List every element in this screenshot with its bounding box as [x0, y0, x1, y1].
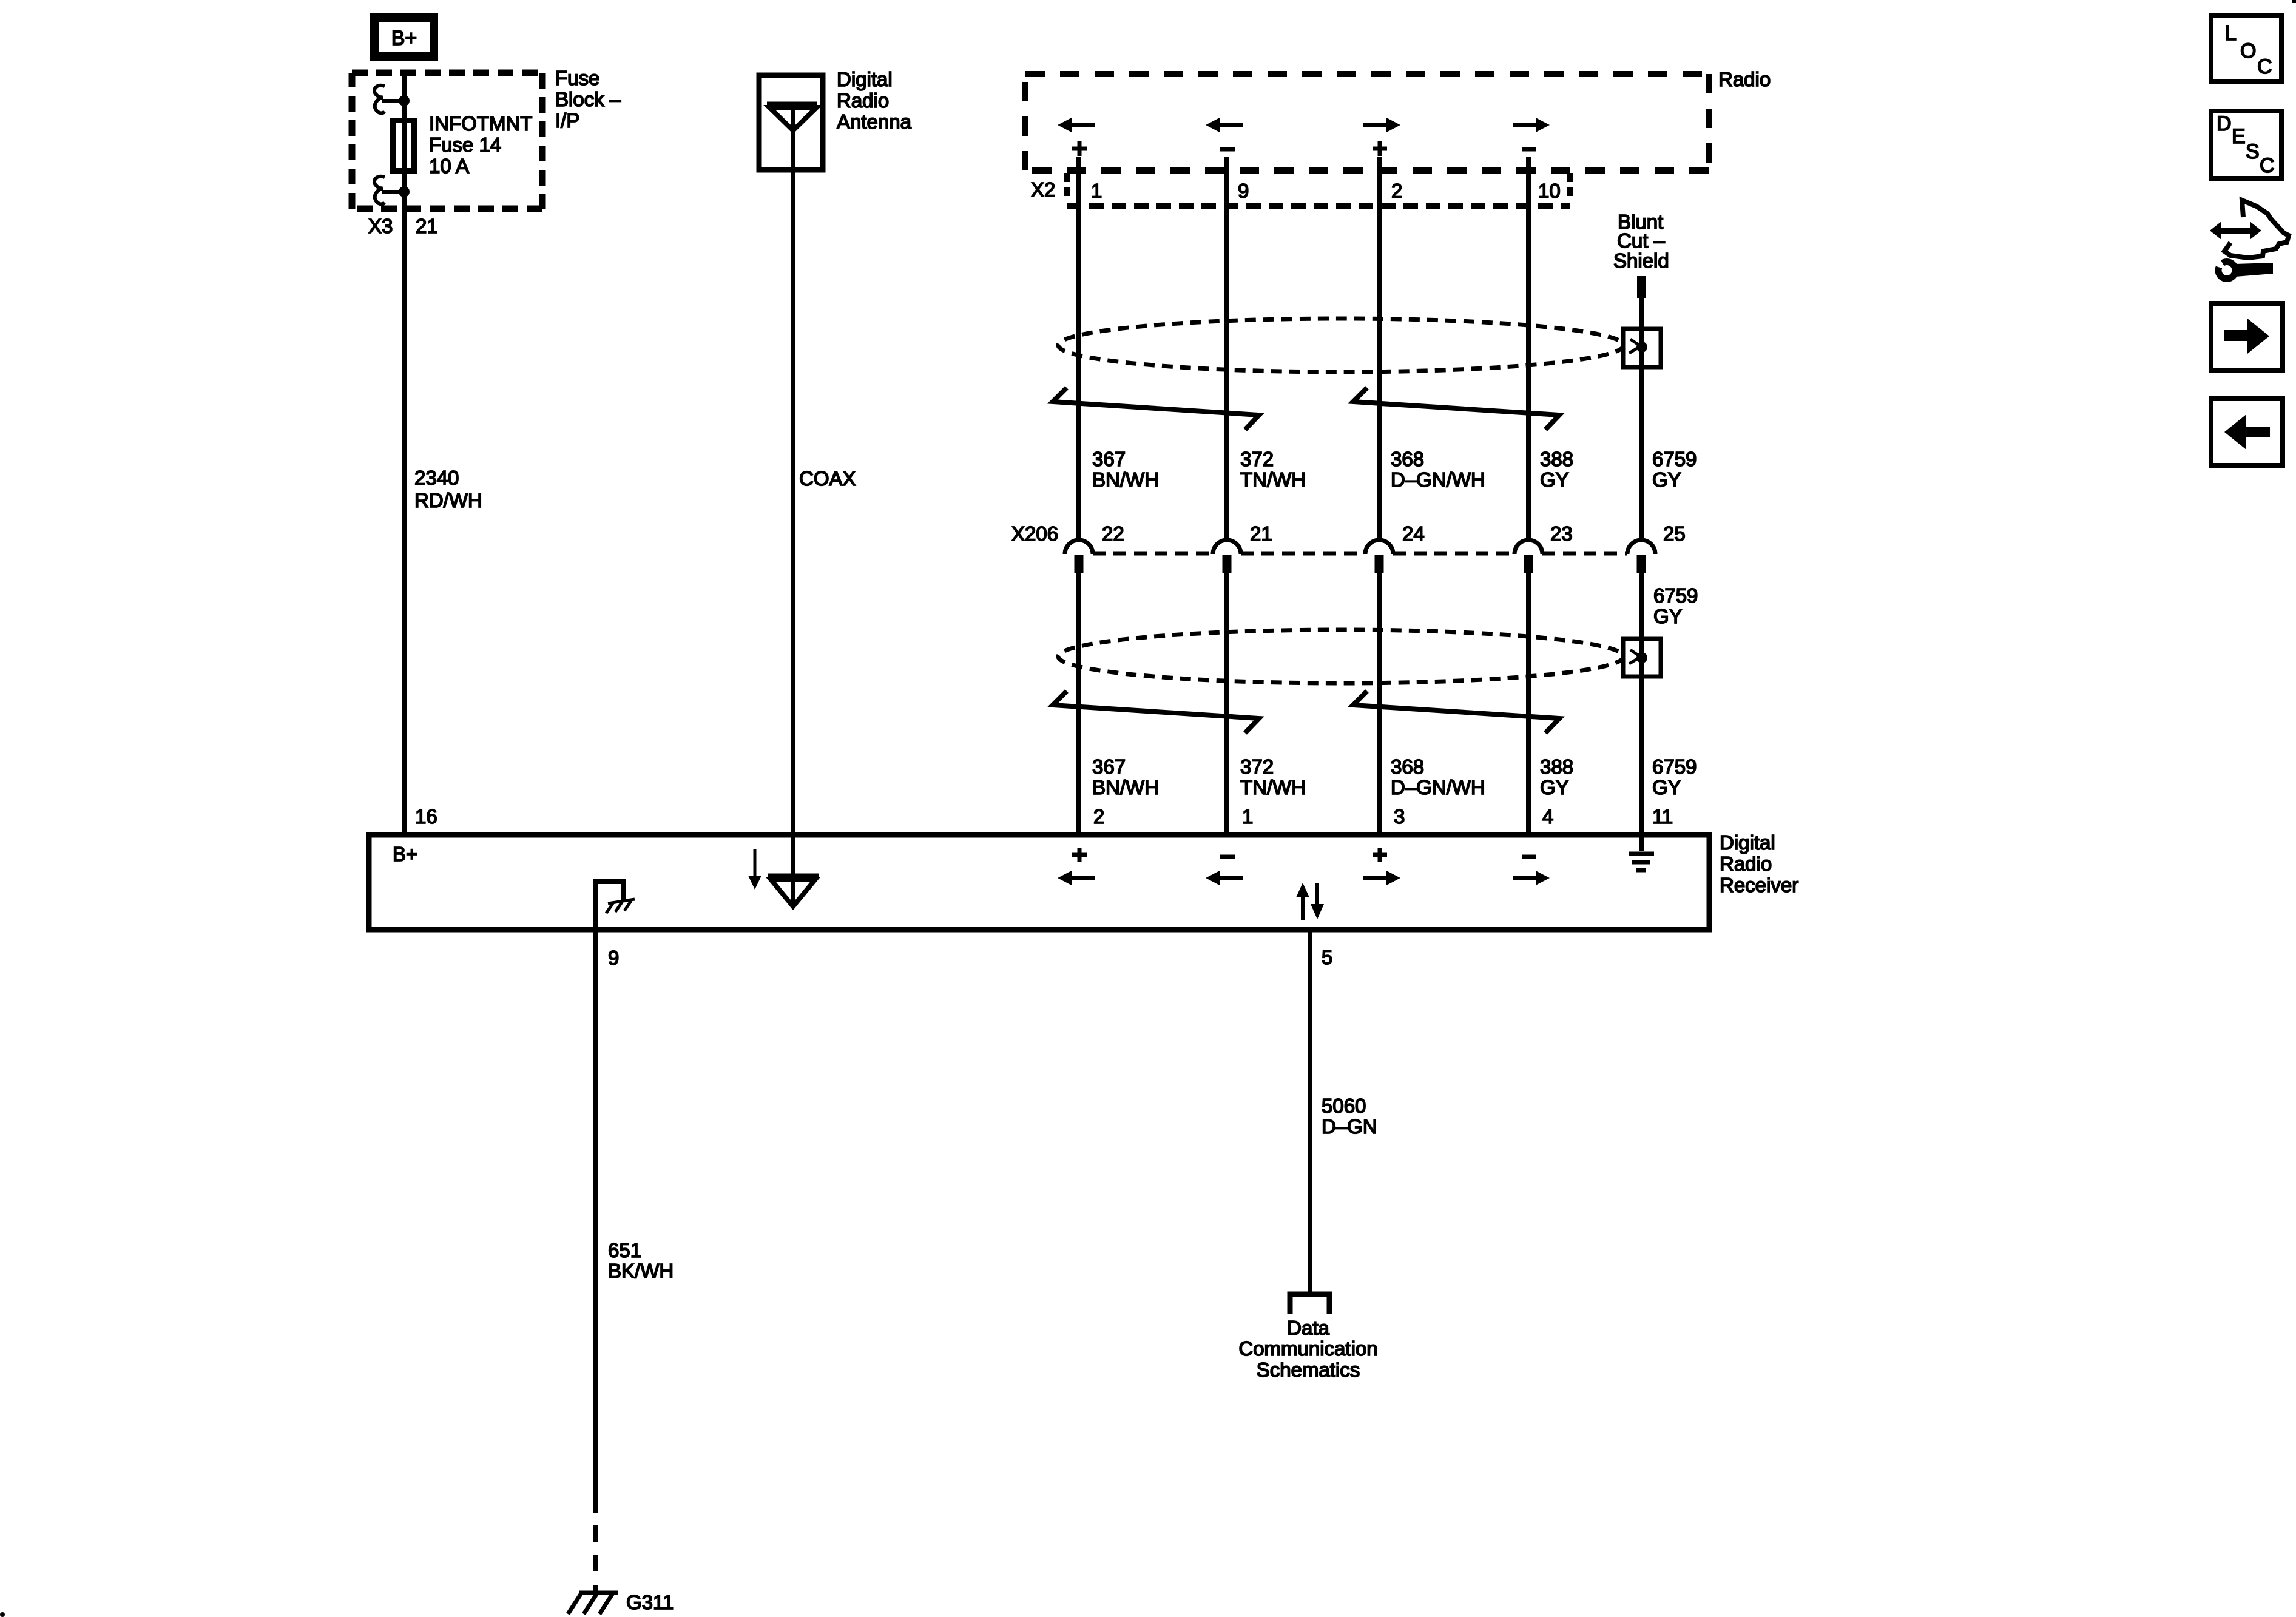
wire 368 D-GN/WH (upper segment): [1377, 157, 1382, 539]
wire 367 BN/WH (lower segment): [1076, 573, 1081, 835]
svg-text:Schematics: Schematics: [1257, 1359, 1360, 1381]
fuse clip junction (bottom): [399, 186, 410, 197]
svg-text:S: S: [2246, 140, 2260, 163]
receiver pin 5 data arrows: [1301, 896, 1305, 920]
radio pin 9 signal arrow (left): [1206, 118, 1220, 132]
wire 5060 D-GN: [1308, 930, 1312, 1296]
icon back arrow box: [2211, 399, 2283, 465]
twisted pair mark lower right: [1353, 691, 1559, 733]
page speck top-right: [2292, 0, 2296, 3]
radio pin 2 polarity +: [1373, 147, 1387, 151]
wire 6759 GY shield (upper segment): [1639, 297, 1644, 539]
svg-text:GY: GY: [1653, 605, 1683, 627]
svg-text:D–GN: D–GN: [1322, 1115, 1377, 1138]
wire 6759 GY shield (lower segment): [1639, 573, 1644, 835]
svg-text:TN/WH: TN/WH: [1240, 468, 1306, 491]
shield braid ellipse (upper): [1058, 319, 1624, 372]
power symbol B+: [370, 13, 438, 61]
digital radio receiver box: [369, 835, 1709, 930]
svg-text:368: 368: [1391, 448, 1424, 470]
svg-text:Radio: Radio: [1718, 68, 1771, 90]
svg-text:E: E: [2232, 125, 2246, 148]
svg-text:2: 2: [1391, 180, 1402, 202]
svg-text:RD/WH: RD/WH: [414, 489, 482, 511]
wire 2340 RD/WH (B+ feed to pin 16): [402, 73, 407, 835]
svg-text:21: 21: [416, 215, 438, 237]
shield solder point (upper): [1636, 342, 1647, 353]
wire 388 GY (upper segment): [1526, 157, 1531, 539]
svg-text:Block –: Block –: [555, 88, 621, 110]
svg-text:Radio: Radio: [1720, 852, 1772, 875]
svg-text:9: 9: [1238, 180, 1249, 202]
receiver pin 2 arrow (left): [1058, 871, 1072, 885]
svg-text:D–GN/WH: D–GN/WH: [1391, 468, 1485, 491]
svg-text:6759: 6759: [1652, 448, 1697, 470]
svg-text:Shield: Shield: [1613, 249, 1669, 272]
radio dashed box: [1025, 71, 1709, 77]
page speck bottom-left: [0, 1612, 5, 1617]
wire 651 BK/WH: [593, 930, 598, 1513]
svg-text:6759: 6759: [1653, 584, 1698, 607]
receiver pin 1 arrow (left): [1206, 871, 1220, 885]
wire 388 GY (lower segment): [1526, 573, 1531, 835]
svg-text:Fuse 14: Fuse 14: [429, 133, 501, 156]
receiver internal antenna symbol: [791, 835, 795, 903]
shield solder point (lower): [1636, 652, 1647, 663]
receiver pin 11 internal ground: [1639, 835, 1644, 851]
svg-text:2: 2: [1093, 805, 1104, 828]
antenna symbol: [767, 102, 817, 107]
coax wire: [791, 104, 795, 835]
svg-text:COAX: COAX: [799, 467, 856, 490]
svg-text:651: 651: [608, 1239, 641, 1261]
wire 372 TN/WH (lower segment): [1224, 573, 1229, 835]
svg-text:21: 21: [1250, 522, 1272, 545]
antenna box (Digital Radio Antenna): [759, 75, 823, 170]
connector X2 dashed outline: [1064, 173, 1070, 200]
wire 367 BN/WH (upper segment): [1076, 157, 1081, 539]
fuse clip junction (top): [399, 95, 410, 106]
svg-text:L: L: [2225, 22, 2237, 45]
svg-text:GY: GY: [1652, 468, 1681, 491]
radio pin 2 signal arrow (right): [1386, 118, 1400, 132]
svg-text:C: C: [2257, 55, 2272, 78]
X206 dashed line: [1093, 552, 1213, 556]
svg-text:372: 372: [1240, 755, 1274, 778]
svg-text:5: 5: [1322, 946, 1332, 968]
radio pin 10 polarity -: [1522, 147, 1536, 152]
radio pin 10 signal arrow (right): [1536, 118, 1550, 132]
svg-text:4: 4: [1542, 805, 1553, 828]
radio pin 1 polarity +: [1072, 147, 1087, 151]
receiver pin 2 polarity +: [1072, 853, 1087, 857]
svg-text:I/P: I/P: [555, 109, 579, 132]
svg-text:2340: 2340: [414, 467, 459, 489]
svg-text:11: 11: [1652, 805, 1673, 828]
svg-text:Receiver: Receiver: [1720, 874, 1798, 896]
svg-text:BN/WH: BN/WH: [1092, 468, 1159, 491]
svg-text:Radio: Radio: [837, 89, 889, 112]
svg-text:24: 24: [1402, 522, 1425, 545]
svg-text:5060: 5060: [1322, 1095, 1366, 1117]
svg-text:Communication: Communication: [1238, 1337, 1377, 1360]
twisted pair mark upper right: [1353, 388, 1559, 430]
svg-text:BN/WH: BN/WH: [1092, 776, 1159, 798]
svg-text:367: 367: [1092, 755, 1126, 778]
svg-text:TN/WH: TN/WH: [1240, 776, 1306, 798]
svg-text:388: 388: [1540, 448, 1573, 470]
svg-text:16: 16: [415, 805, 437, 828]
ground G311: [579, 1591, 618, 1595]
svg-text:10: 10: [1538, 180, 1561, 202]
radio pin 1 signal arrow (left): [1058, 118, 1072, 132]
receiver pin 9 internal ground: [596, 882, 623, 930]
shield termination square (upper): [1623, 329, 1661, 367]
svg-text:25: 25: [1663, 522, 1686, 545]
svg-text:X206: X206: [1011, 522, 1058, 545]
off-page connector to Data Communication Schematics: [1290, 1294, 1329, 1314]
receiver pin 4 arrow (right): [1536, 871, 1550, 885]
svg-text:B+: B+: [393, 843, 417, 865]
svg-text:BK/WH: BK/WH: [608, 1260, 674, 1282]
svg-text:3: 3: [1394, 805, 1405, 828]
svg-text:B+: B+: [391, 27, 417, 50]
svg-text:GY: GY: [1652, 776, 1681, 798]
fuse INFOTMNT Fuse 14 10A: [393, 121, 414, 171]
svg-text:GY: GY: [1540, 776, 1569, 798]
svg-text:372: 372: [1240, 448, 1274, 470]
svg-text:22: 22: [1102, 522, 1124, 545]
svg-text:388: 388: [1540, 755, 1573, 778]
X206 connector arcs and stubs: [1065, 540, 1093, 554]
svg-text:GY: GY: [1540, 468, 1569, 491]
twisted pair mark upper left: [1053, 388, 1259, 430]
svg-text:Data: Data: [1287, 1317, 1329, 1339]
svg-text:10 A: 10 A: [429, 155, 469, 177]
svg-text:367: 367: [1092, 448, 1126, 470]
svg-text:Antenna: Antenna: [837, 110, 912, 133]
svg-text:6759: 6759: [1652, 755, 1697, 778]
svg-text:G311: G311: [626, 1591, 674, 1613]
shield termination square (lower): [1623, 639, 1661, 677]
svg-text:C: C: [2260, 154, 2275, 177]
icon repair info (arrow, terminal, wrench): [2220, 228, 2254, 234]
svg-text:23: 23: [1550, 522, 1573, 545]
fuse block I/P dashed box: [352, 70, 542, 76]
svg-text:Fuse: Fuse: [555, 67, 599, 89]
svg-text:INFOTMNT: INFOTMNT: [429, 112, 532, 135]
svg-text:9: 9: [608, 947, 619, 969]
svg-text:Digital: Digital: [1720, 831, 1775, 854]
receiver pin 4 polarity -: [1522, 855, 1536, 859]
wire 368 D-GN/WH (lower segment): [1377, 573, 1382, 835]
icon LOC box: [2211, 16, 2281, 82]
svg-text:X3: X3: [368, 215, 393, 237]
receiver pin 3 polarity +: [1373, 853, 1387, 857]
shield braid ellipse (lower): [1058, 630, 1624, 683]
svg-text:O: O: [2240, 39, 2256, 62]
receiver pin 1 polarity -: [1220, 855, 1235, 859]
svg-text:D: D: [2217, 112, 2232, 135]
wire 372 TN/WH (upper segment): [1224, 157, 1229, 539]
twisted pair mark lower left: [1053, 691, 1259, 733]
blunt cut stub: [1637, 276, 1646, 298]
svg-text:Cut –: Cut –: [1617, 229, 1666, 252]
svg-text:1: 1: [1091, 180, 1102, 202]
icon forward arrow box: [2211, 303, 2283, 370]
receiver pin 3 arrow (right): [1386, 871, 1400, 885]
svg-text:Digital: Digital: [837, 68, 893, 90]
svg-text:X2: X2: [1031, 178, 1055, 201]
receiver coax input arrow: [754, 849, 757, 877]
svg-text:368: 368: [1391, 755, 1424, 778]
svg-text:D–GN/WH: D–GN/WH: [1391, 776, 1485, 798]
radio pin 9 polarity -: [1220, 147, 1235, 152]
icon DESC box: [2211, 111, 2281, 178]
svg-text:1: 1: [1242, 805, 1253, 828]
